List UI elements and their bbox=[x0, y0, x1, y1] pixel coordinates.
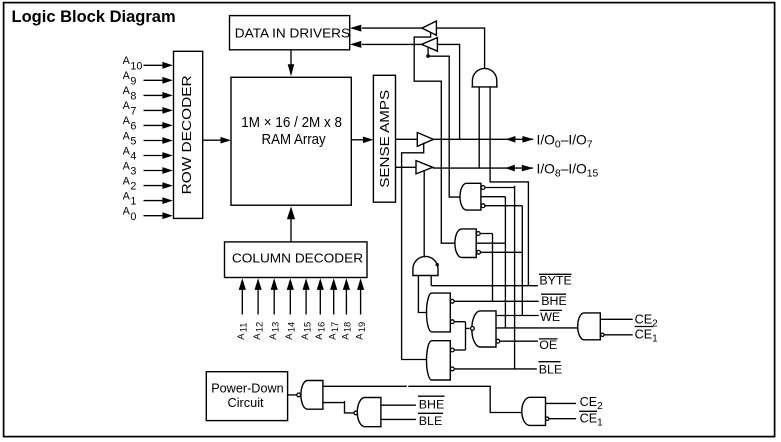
svg-text:A: A bbox=[123, 130, 131, 142]
box Power-Down Circuit bbox=[206, 372, 287, 421]
svg-text:CE1: CE1 bbox=[580, 411, 604, 428]
svg-text:A: A bbox=[123, 100, 131, 112]
svg-text:8: 8 bbox=[130, 91, 136, 103]
bubble gate G input bbox=[297, 393, 301, 397]
column address arrows A11-A19 into column decoder bbox=[239, 278, 365, 314]
bubble gate I bottom output bbox=[546, 417, 549, 420]
svg-text:A: A bbox=[123, 145, 131, 157]
svg-text:A11: A11 bbox=[235, 323, 248, 340]
svg-text:SENSE AMPS: SENSE AMPS bbox=[377, 90, 392, 188]
svg-text:I/O0–I/O7: I/O0–I/O7 bbox=[537, 132, 593, 150]
wire U2 enable tap bbox=[428, 47, 461, 198]
label OE bbox=[539, 338, 558, 352]
svg-text:2: 2 bbox=[130, 181, 136, 193]
svg-text:Circuit: Circuit bbox=[228, 395, 264, 410]
svg-text:Power-Down: Power-Down bbox=[211, 381, 284, 396]
svg-text:A19: A19 bbox=[354, 322, 367, 340]
wire AND1 input left leg to I/O8-15 line bbox=[478, 87, 480, 168]
wire U1 enable tap bbox=[414, 32, 456, 243]
and-gate AND1 (byte control, points up) bbox=[471, 68, 497, 87]
svg-text:4: 4 bbox=[130, 151, 136, 163]
wire I/O8-15 line bbox=[433, 167, 533, 169]
svg-text:I/O8–I/O15: I/O8–I/O15 bbox=[537, 161, 599, 179]
gate E (control fan-out, mirrored) bbox=[472, 311, 496, 347]
box DATA IN DRIVERS bbox=[230, 16, 351, 50]
bubble gate D top output bbox=[450, 348, 454, 352]
wire gate A middle output bbox=[481, 197, 506, 328]
svg-text:A: A bbox=[123, 175, 131, 187]
svg-text:ROW DECODER: ROW DECODER bbox=[179, 75, 194, 194]
wire I/O0-7 bus into data-in drivers (arrow left) bbox=[350, 25, 422, 32]
label BLE bbox=[538, 362, 562, 377]
box RAM Array 1M x 16 / 2M x 8 bbox=[231, 77, 351, 205]
svg-text:A15: A15 bbox=[299, 322, 312, 340]
svg-text:A: A bbox=[123, 55, 131, 67]
wire AND1 input right leg to BYTE net jog bbox=[490, 87, 528, 286]
bubble gate B bottom output bbox=[477, 250, 481, 254]
bubble gate H input bbox=[354, 411, 358, 415]
bubble gate C bottom output bbox=[450, 320, 454, 324]
wire gate A top output to BLE net vertical bbox=[485, 186, 515, 369]
bubble gate B top output bbox=[476, 232, 480, 236]
svg-text:BHE: BHE bbox=[541, 294, 566, 308]
wire gate C bottom output to gate E input and gate D top output bbox=[454, 322, 469, 350]
svg-text:1M × 16 / 2M x 8: 1M × 16 / 2M x 8 bbox=[241, 115, 342, 131]
wire CE2 from gate I top output bbox=[546, 402, 577, 404]
svg-text:CE2: CE2 bbox=[580, 395, 604, 412]
label BYTE bbox=[539, 274, 572, 288]
wire BLE from gate D bottom output bbox=[454, 368, 537, 370]
wire column decoder up into RAM with arrow bbox=[287, 206, 295, 242]
wire U2 input from I/O0-7 line bbox=[437, 44, 459, 139]
wire data-in drivers down into RAM with arrow bbox=[288, 50, 295, 76]
double arrow I/O8-15 bbox=[505, 165, 533, 172]
svg-text:BLE: BLE bbox=[539, 363, 562, 377]
address input arrows A0-A10 into row decoder bbox=[144, 62, 173, 219]
bubble gate F bottom output bbox=[601, 333, 604, 336]
svg-text:BHE: BHE bbox=[419, 397, 444, 411]
wire CE1 from gate I bottom output bbox=[549, 418, 576, 420]
gate A (upper-byte fan-out, mirrored) bbox=[460, 183, 481, 210]
bubble gate A bottom output bbox=[481, 204, 485, 208]
junction dot AND2 right edge bbox=[436, 263, 439, 266]
svg-text:COLUMN DECODER: COLUMN DECODER bbox=[232, 252, 363, 266]
svg-text:A: A bbox=[123, 190, 131, 202]
svg-text:Logic Block Diagram: Logic Block Diagram bbox=[12, 8, 176, 26]
svg-text:BYTE: BYTE bbox=[539, 274, 571, 288]
wire I/O0-7 line bbox=[433, 138, 533, 140]
wire RAM to sense amps with arrow bbox=[351, 137, 373, 144]
svg-text:BLE: BLE bbox=[419, 414, 442, 428]
svg-text:A13: A13 bbox=[267, 322, 280, 340]
wire gate B top output to BHE net vertical bbox=[480, 234, 492, 302]
label BHE bbox=[541, 294, 567, 308]
junction dot U2 tap bbox=[426, 54, 430, 58]
svg-text:A14: A14 bbox=[283, 322, 296, 340]
bubble gate A top output bbox=[481, 186, 485, 190]
box SENSE AMPS bbox=[373, 75, 395, 202]
svg-text:5: 5 bbox=[130, 136, 136, 148]
svg-text:7: 7 bbox=[130, 106, 136, 118]
label CE1 (overline) bbox=[635, 327, 659, 345]
svg-text:A17: A17 bbox=[327, 322, 340, 340]
buffer U3 enable tap bbox=[402, 143, 429, 360]
buffer U3 (sense amps to I/O0-7, points right) bbox=[396, 133, 434, 147]
svg-text:0: 0 bbox=[130, 211, 136, 223]
svg-text:CE1: CE1 bbox=[635, 327, 659, 344]
wire AND2 right input from BYTE wire bbox=[430, 276, 432, 286]
gate H (byte enable gate, mirrored) bbox=[357, 398, 381, 427]
wire BLE from gate H bottom output bbox=[381, 418, 416, 420]
wire I/O8-15 bus into data-in drivers (arrow left) bbox=[350, 41, 422, 48]
wire row decoder to RAM with arrow bbox=[203, 137, 231, 144]
wire WE from gate E top output bbox=[496, 315, 539, 317]
svg-text:OE: OE bbox=[539, 338, 557, 352]
and-gate AND2 (byte select, points up) bbox=[413, 256, 438, 275]
svg-text:A16: A16 bbox=[313, 322, 326, 340]
svg-text:DATA IN DRIVERS: DATA IN DRIVERS bbox=[235, 25, 351, 40]
svg-text:A: A bbox=[123, 70, 131, 82]
bubble gate E bottom output bbox=[496, 339, 500, 343]
wire BYTE bbox=[431, 285, 538, 287]
column address labels A11-A19 (rotated) bbox=[235, 322, 367, 340]
wire gate A bottom output to WE net vertical bbox=[485, 206, 522, 316]
wire OE from gate E bottom output bbox=[500, 340, 538, 342]
gate I (chip enable gate bottom, mirrored) bbox=[522, 397, 546, 425]
svg-text:A12: A12 bbox=[251, 322, 264, 340]
gate B (lower-byte fan-out, mirrored) bbox=[455, 229, 476, 258]
bubble gate C top output bbox=[450, 299, 454, 303]
wire gate B middle output joins gate A middle net bbox=[476, 242, 505, 244]
label WE bbox=[540, 310, 562, 324]
wire CE1 from gate F bottom output bbox=[604, 334, 633, 336]
svg-text:A: A bbox=[123, 115, 131, 127]
svg-text:A: A bbox=[123, 206, 131, 218]
gate F (chip enable gate, mirrored) bbox=[578, 313, 601, 340]
label BHE bottom bbox=[418, 396, 445, 411]
wire gate B bottom output joins WE net vertical bbox=[481, 251, 523, 253]
svg-text:6: 6 bbox=[130, 121, 136, 133]
wire gate G bottom output to gate H input bbox=[323, 401, 354, 413]
box COLUMN DECODER bbox=[225, 242, 368, 278]
buffer U4 (sense amps to I/O8-15, points right) bbox=[396, 161, 433, 174]
wire power-down box to gate G bbox=[288, 394, 297, 396]
svg-text:A: A bbox=[123, 85, 131, 97]
wire U1 input from AND1 output bbox=[436, 28, 484, 69]
svg-text:1: 1 bbox=[130, 196, 136, 208]
bubble gate E input bbox=[471, 327, 475, 331]
svg-text:RAM Array: RAM Array bbox=[262, 132, 327, 148]
wire gate G top output long run to gate I bbox=[323, 386, 523, 412]
gate G (power-down gate, mirrored) bbox=[301, 381, 323, 410]
svg-text:A: A bbox=[123, 160, 131, 172]
wire CE2 from gate F top output bbox=[600, 318, 632, 320]
svg-text:A18: A18 bbox=[339, 322, 352, 340]
wire gate D top output stub bbox=[454, 349, 465, 351]
double arrow I/O0-7 bbox=[506, 136, 534, 143]
label BLE bottom bbox=[418, 413, 443, 428]
svg-text:WE: WE bbox=[540, 310, 560, 324]
wire AND2 left input to gate C input bbox=[418, 276, 428, 313]
svg-text:10: 10 bbox=[130, 60, 142, 72]
address inputs A0-A10 labels bbox=[123, 55, 143, 223]
gate C (BHE fan-out, mirrored) bbox=[427, 293, 451, 332]
bubble gate D bottom output bbox=[450, 367, 454, 371]
gate D (BLE fan-out, mirrored) bbox=[427, 341, 451, 380]
wire BHE from gate C top output bbox=[454, 300, 538, 302]
buffer U1 (data-in byte 0, points left) bbox=[422, 21, 436, 35]
svg-text:9: 9 bbox=[130, 75, 136, 87]
label CE1 bottom (overline) bbox=[579, 411, 603, 428]
buffer U2 (data-in byte 1, points left) bbox=[422, 38, 438, 52]
box ROW DECODER bbox=[174, 51, 203, 218]
buffer U4 enable tap from AND2 output bbox=[423, 170, 425, 256]
wire gate E middle output to gate F input bbox=[496, 327, 578, 329]
svg-text:3: 3 bbox=[130, 166, 136, 178]
wire BHE from gate H top output bbox=[381, 404, 416, 406]
